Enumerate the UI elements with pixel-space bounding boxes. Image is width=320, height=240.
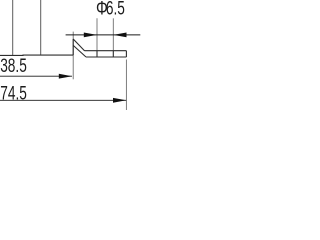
wire vertical object line right (cropped view) (40, 0, 42, 55)
part: hole left edge tick (96, 51, 98, 57)
svg-text:6.5: 6.5 (106, 0, 125, 19)
part: tab top edge (85, 50, 127, 52)
extension line hole right edge (112, 18, 114, 50)
part: plate right edge at bend (72, 39, 74, 55)
arrowhead right-pointing at 38.5 (59, 74, 72, 79)
arrowhead left-pointing at hole right edge (113, 33, 126, 38)
dimension text 38.5 (0, 55, 27, 77)
svg-text:38.5: 38.5 (0, 55, 27, 77)
dimension text 74.5 (0, 82, 27, 104)
svg-text:74.5: 74.5 (0, 82, 27, 104)
part: plate bottom edge (0, 54, 73, 56)
dimension line 74.5 (0, 99, 126, 101)
wire vertical object line left (cropped view) (12, 0, 14, 55)
dimension line PHI 6.5 (66, 34, 141, 36)
part: tab right end edge (125, 51, 127, 57)
background (0, 0, 150, 110)
part: bent tab lower diagonal (73, 45, 86, 57)
part: hole right edge tick (112, 51, 114, 57)
part: bent tab upper diagonal (73, 39, 84, 51)
arrowhead right-pointing at hole left edge (84, 33, 97, 38)
dimension text PHI 6.5 (96, 0, 108, 19)
arrowhead right-pointing at 74.5 (113, 98, 126, 103)
extension line for 38.5 at bend (72, 32, 74, 80)
dimension line 38.5 (0, 75, 72, 77)
extension line hole left edge (96, 18, 98, 50)
extension line for 74.5 at part right end (125, 60, 127, 111)
part: tab bottom edge (86, 56, 126, 58)
